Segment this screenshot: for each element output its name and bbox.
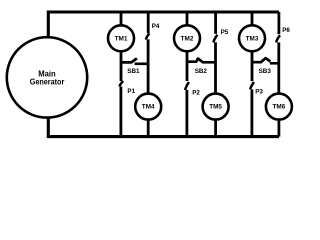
svg-text:TM2: TM2	[181, 35, 194, 42]
svg-text:P4: P4	[152, 23, 160, 30]
svg-text:TM1: TM1	[115, 35, 128, 42]
svg-text:TM4: TM4	[142, 104, 155, 111]
svg-text:P5: P5	[221, 29, 229, 36]
svg-text:P2: P2	[192, 89, 200, 96]
svg-text:Generator: Generator	[30, 78, 65, 87]
svg-text:SB3: SB3	[259, 68, 272, 75]
svg-text:SB2: SB2	[195, 68, 208, 75]
svg-text:TM6: TM6	[273, 104, 286, 111]
svg-text:P6: P6	[282, 27, 290, 34]
svg-text:SB1: SB1	[127, 68, 140, 75]
svg-text:TM3: TM3	[246, 35, 259, 42]
svg-text:TM5: TM5	[209, 104, 222, 111]
svg-text:P1: P1	[127, 88, 135, 95]
svg-text:P3: P3	[255, 89, 263, 96]
